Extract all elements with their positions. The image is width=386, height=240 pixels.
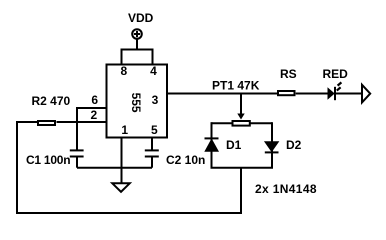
svg-text:1: 1 (121, 123, 128, 137)
potentiometer PT1 wiper arrow (237, 114, 244, 120)
wire bottom rail (16, 212, 242, 214)
capacitor C2 (145, 150, 159, 167)
wire ground bus C1 to C2 (77, 167, 152, 169)
LED RED (328, 82, 342, 100)
svg-text:PT1 47K: PT1 47K (212, 79, 260, 93)
wire pin 2 to resistor R2 (57, 121, 107, 123)
svg-text:6: 6 (91, 93, 98, 107)
capacitor C1 (70, 150, 84, 167)
wire pin 3 output (167, 93, 277, 95)
diode D1 (205, 138, 219, 151)
resistor R2 (38, 121, 55, 125)
potentiometer PT1 body (233, 121, 250, 126)
wire junction vertical pin6 to C1 (76, 107, 78, 151)
wire pin 5 to C2 (151, 138, 153, 151)
wire right rail up to diode loop (240, 168, 242, 214)
svg-text:RED: RED (323, 67, 349, 81)
power symbol VDD (132, 29, 142, 49)
svg-text:R2 470: R2 470 (32, 94, 71, 108)
wire pot right terminal (251, 122, 273, 124)
wire diode loop bottom (211, 167, 274, 169)
ground (112, 183, 129, 192)
svg-text:D2: D2 (286, 138, 302, 152)
wire R2 left to left rail (17, 121, 37, 123)
IC U1 555 body (107, 65, 168, 138)
wire pin 1 down to ground (121, 138, 123, 183)
svg-text:C2 10n: C2 10n (166, 153, 205, 167)
svg-text:555: 555 (129, 93, 143, 113)
wire VDD bus to pins 8 and 4 (122, 50, 153, 65)
wire RS to LED (296, 93, 328, 95)
output terminal (362, 85, 370, 103)
svg-text:2: 2 (90, 108, 97, 122)
diode D2 (265, 142, 279, 153)
wire pot left terminal (212, 122, 232, 124)
wire LED to terminal (335, 93, 361, 95)
svg-text:8: 8 (120, 64, 127, 78)
resistor RS (278, 91, 295, 95)
wire diode loop right (271, 122, 273, 168)
svg-text:C1 100n: C1 100n (26, 153, 70, 167)
svg-text:4: 4 (150, 64, 157, 78)
svg-text:2x 1N4148: 2x 1N4148 (255, 182, 317, 196)
svg-text:5: 5 (151, 123, 158, 137)
svg-text:3: 3 (152, 93, 159, 107)
svg-text:RS: RS (280, 67, 297, 81)
svg-text:D1: D1 (226, 138, 242, 152)
wire diode loop left (211, 122, 213, 168)
wire pin 6 stub (77, 107, 107, 109)
potentiometer PT1 wiper wire (240, 94, 242, 115)
svg-text:VDD: VDD (128, 11, 154, 25)
wire left rail down (16, 121, 18, 213)
